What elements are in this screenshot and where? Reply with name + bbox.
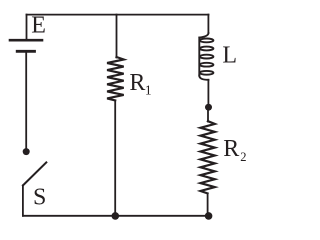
svg-text:2: 2: [240, 150, 246, 164]
junction dot R2 bottom: [205, 212, 213, 220]
svg-text:R: R: [223, 136, 239, 162]
node dot between L and R2: [205, 104, 212, 111]
inductor L: [199, 33, 213, 80]
switch S blade: [23, 162, 46, 185]
wire R2 bottom lead: [207, 193, 209, 215]
battery E short plate: [17, 50, 34, 53]
battery E long plate: [10, 39, 42, 42]
wire battery bottom lead: [25, 53, 27, 149]
svg-text:R: R: [129, 70, 145, 96]
wire switch to bottom corner: [22, 185, 24, 215]
resistor R1: [107, 57, 124, 100]
svg-text:E: E: [31, 13, 46, 39]
svg-text:S: S: [33, 184, 46, 210]
wire R2 top lead: [207, 110, 209, 121]
svg-text:L: L: [222, 43, 237, 69]
svg-text:1: 1: [145, 83, 152, 98]
wire inductor bottom lead: [207, 80, 209, 104]
junction dot R1 bottom: [112, 212, 120, 220]
wire R1 top lead: [116, 15, 118, 58]
wire battery top lead: [26, 15, 28, 40]
switch terminal dot: [23, 148, 30, 155]
wire bottom horizontal: [23, 215, 209, 217]
resistor R2: [201, 121, 215, 193]
wire R1 bottom lead: [114, 100, 116, 215]
wire inductor top lead: [207, 15, 209, 33]
wire top horizontal: [27, 14, 209, 16]
